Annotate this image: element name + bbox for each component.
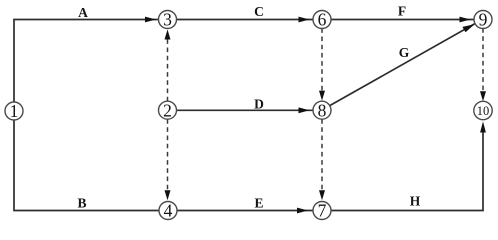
svg-text:F: F (398, 3, 406, 18)
arrowhead dummy 2-3 (pointing up into node 3) (165, 30, 171, 40)
dashed wire 9-10 (dummy) (482, 28, 484, 95)
node 4 (159, 202, 177, 220)
svg-text:1: 1 (10, 101, 19, 121)
svg-text:D: D (254, 96, 264, 111)
wire 7-10 (activity H path) (331, 131, 483, 211)
svg-text:E: E (254, 196, 263, 211)
dashed wire 6-8 (dummy) (321, 28, 323, 94)
wire 1-3 (activity A path) (14, 20, 159, 103)
svg-text:7: 7 (318, 201, 327, 221)
arrowhead dummy 2-4 (pointing down into node 4) (165, 190, 171, 200)
svg-text:A: A (78, 5, 88, 20)
wire 1-4 (activity B path) (14, 120, 159, 211)
arrowhead C into node 6 (299, 17, 310, 23)
svg-text:2: 2 (163, 100, 172, 120)
wire 3-6 (activity C) (176, 19, 313, 21)
node 10 (474, 101, 492, 119)
svg-text:3: 3 (163, 10, 172, 30)
svg-text:4: 4 (164, 201, 173, 221)
arrowhead H into node 10 (pointing up) (480, 121, 486, 132)
svg-text:10: 10 (477, 104, 490, 118)
svg-text:6: 6 (318, 10, 327, 30)
node 3 (159, 11, 177, 29)
arrowhead E into node 7 (297, 208, 308, 214)
wire 6-9 (activity F) (331, 19, 475, 21)
arrowhead F into node 9 (460, 17, 471, 23)
svg-text:C: C (254, 4, 264, 19)
node 8 (313, 101, 331, 119)
arrowhead A into node 3 (145, 17, 156, 23)
arrowhead G into node 9 (462, 24, 474, 32)
svg-text:B: B (77, 196, 86, 211)
node 7 (313, 202, 331, 220)
dashed wire 8-7 (dummy) (321, 119, 323, 194)
arrowhead dummy 8-7 (pointing down into node 7) (319, 190, 325, 200)
arrowhead D into node 8 (299, 107, 310, 113)
svg-text:9: 9 (479, 10, 488, 30)
node 9 (474, 11, 492, 29)
wire 4-7 (activity E) (177, 210, 314, 212)
node 2 (159, 101, 177, 119)
wire 2-8 (activity D) (176, 109, 313, 111)
dashed wire 2-3 (dummy) (167, 34, 169, 101)
node 1 (5, 102, 23, 120)
dashed wire 2-4 (dummy) (167, 119, 169, 194)
node 6 (313, 11, 331, 29)
svg-text:G: G (399, 45, 410, 60)
wire 8-9 (activity G, diagonal) (330, 24, 476, 106)
arrowhead dummy 6-8 (pointing down into node 8) (319, 91, 325, 101)
svg-text:8: 8 (318, 100, 327, 120)
svg-text:H: H (410, 193, 421, 208)
arrowhead dummy 9-10 (pointing down into node 10) (480, 91, 486, 101)
